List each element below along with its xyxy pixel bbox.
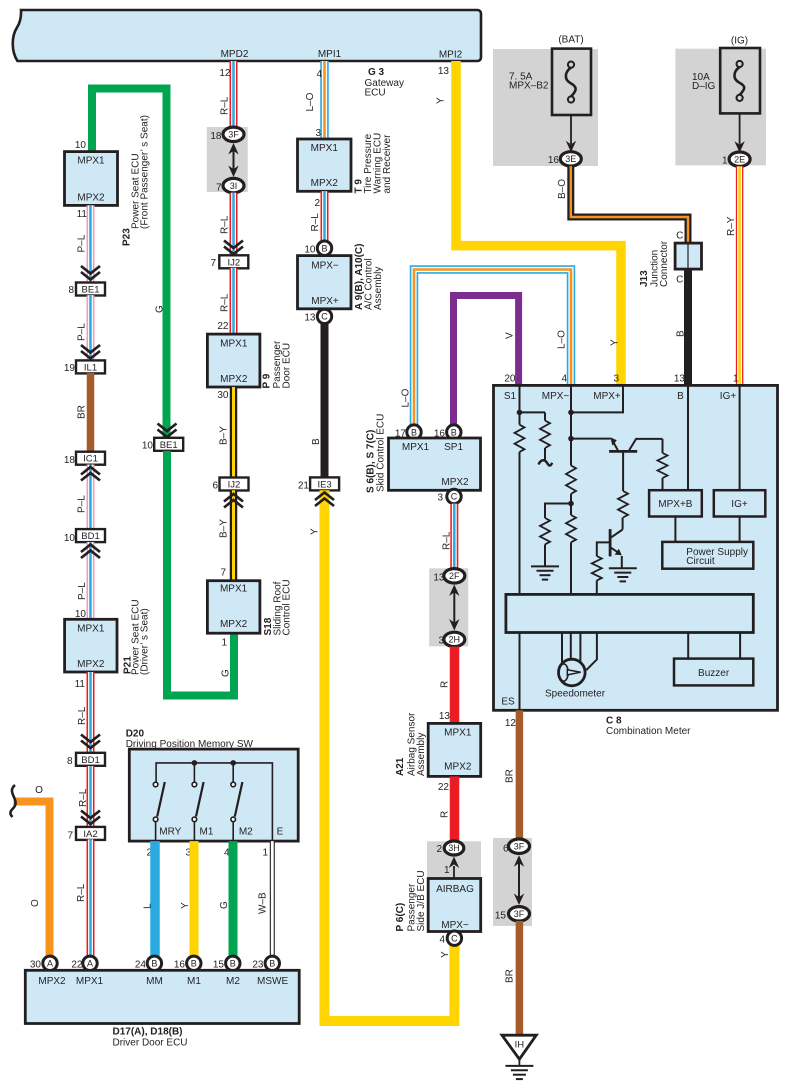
svg-text:IG+: IG+ xyxy=(720,391,737,402)
connector 3F pin15 xyxy=(509,907,530,921)
svg-text:4: 4 xyxy=(561,374,567,385)
junction IL1 pin19 xyxy=(76,360,105,373)
label BR xyxy=(505,969,516,983)
svg-text:S1: S1 xyxy=(504,391,517,402)
svg-text:MPX1: MPX1 xyxy=(402,442,430,453)
label B-O xyxy=(557,179,568,199)
svg-text:M1: M1 xyxy=(187,976,201,987)
svg-text:1: 1 xyxy=(444,865,450,876)
label BR xyxy=(77,405,88,419)
svg-text:IJ2: IJ2 xyxy=(228,480,241,491)
pin 18 IC1 xyxy=(64,455,76,466)
terminal M2 xyxy=(239,827,253,838)
svg-text:18: 18 xyxy=(210,131,222,142)
svg-text:R–L: R–L xyxy=(220,96,231,115)
svg-text:22: 22 xyxy=(71,960,83,971)
wire chevron down above IL1 xyxy=(81,345,100,359)
svg-text:P–L: P–L xyxy=(77,234,88,252)
svg-text:7: 7 xyxy=(67,831,73,842)
resistor R7 below Q2 base xyxy=(592,556,602,594)
svg-text:20: 20 xyxy=(504,374,516,385)
svg-text:BD1: BD1 xyxy=(81,531,99,542)
block MPX+B xyxy=(649,490,702,516)
terminal MPX1 of S18 xyxy=(220,584,248,595)
svg-text:B–Y: B–Y xyxy=(219,519,230,538)
junction BE1 pin10 xyxy=(154,438,183,451)
fuse block background (BAT) xyxy=(493,49,598,166)
svg-text:V: V xyxy=(505,332,516,339)
label A21 Airbag Sensor Assembly xyxy=(395,712,427,776)
label G xyxy=(155,305,166,313)
svg-text:Assembly: Assembly xyxy=(416,733,427,776)
svg-text:13: 13 xyxy=(304,313,316,324)
svg-text:C: C xyxy=(451,933,458,943)
pin 6 xyxy=(503,844,509,855)
wire R-L IJ2 to P9 xyxy=(230,268,238,334)
resistor R2 xyxy=(540,412,550,461)
pin 7 IJ2 xyxy=(210,258,216,269)
svg-text:MSWE: MSWE xyxy=(257,976,288,987)
svg-text:B: B xyxy=(269,959,275,969)
svg-text:16: 16 xyxy=(174,960,186,971)
wire MPX+ internal down-left xyxy=(571,385,623,412)
terminal MPX1 of D17 xyxy=(76,976,104,987)
svg-text:IA2: IA2 xyxy=(83,829,97,840)
ECU A21 Airbag Sensor Assembly box xyxy=(428,723,481,776)
svg-text:(IG): (IG) xyxy=(731,36,748,47)
svg-text:C 8: C 8 xyxy=(606,716,622,727)
wire B internal to MPX+B xyxy=(687,385,689,490)
wire S1 internal xyxy=(519,385,521,594)
connector 3F pin6 xyxy=(509,839,530,853)
svg-text:MPX–B2: MPX–B2 xyxy=(509,81,549,92)
connector block background 2F/2H xyxy=(429,568,468,646)
connector 3I pin7 xyxy=(223,178,244,192)
terminal MPX- xyxy=(542,391,570,402)
connector B pin16 of S6 xyxy=(447,425,461,439)
svg-text:Circuit: Circuit xyxy=(686,556,715,567)
arrow between 3F and 3I xyxy=(228,143,238,177)
svg-text:3: 3 xyxy=(613,374,619,385)
node junction base branch xyxy=(568,436,574,442)
svg-text:3: 3 xyxy=(315,128,321,139)
svg-text:D20: D20 xyxy=(126,729,145,740)
ECU A9 A/C Control Assembly box xyxy=(298,256,352,309)
wire B-Y P9 to IJ2(6) xyxy=(230,387,238,478)
label G xyxy=(219,901,230,909)
label R-L xyxy=(76,883,87,902)
svg-text:Buzzer: Buzzer xyxy=(698,668,730,679)
svg-text:R–L: R–L xyxy=(78,788,89,807)
label G xyxy=(221,669,232,677)
svg-text:P–L: P–L xyxy=(77,495,88,513)
svg-text:R–L: R–L xyxy=(310,213,321,232)
svg-text:B: B xyxy=(230,959,236,969)
wire V purple S6 SP1 to meter S1 xyxy=(454,296,519,426)
pin 10 BD1 xyxy=(64,533,76,544)
svg-text:2: 2 xyxy=(436,844,442,855)
svg-text:MPX+: MPX+ xyxy=(311,296,339,307)
block IG+ xyxy=(714,490,766,516)
svg-text:2H: 2H xyxy=(449,635,461,645)
wires to speedometer xyxy=(562,633,597,671)
wire chevron down above IJ2(7) xyxy=(224,241,243,255)
pin 4 meter xyxy=(561,374,567,385)
pin 1 xyxy=(722,156,728,167)
resistor R8 xyxy=(540,518,550,566)
svg-text:ECU: ECU xyxy=(365,88,386,99)
svg-text:12: 12 xyxy=(219,68,231,79)
terminal MPX2 of P9 xyxy=(220,374,248,385)
svg-text:C: C xyxy=(451,492,458,502)
svg-text:3F: 3F xyxy=(228,130,239,140)
svg-text:IC1: IC1 xyxy=(83,454,98,465)
svg-text:IH: IH xyxy=(515,1040,525,1051)
wire P-L BD1 to P21 xyxy=(87,542,95,619)
junction IE3 pin21 xyxy=(310,477,339,490)
label R xyxy=(440,681,451,688)
connector B pin24 of D17 xyxy=(147,956,161,970)
label G3 Gateway ECU xyxy=(365,67,404,99)
svg-text:6: 6 xyxy=(212,481,218,492)
terminal M1 of D17 xyxy=(187,976,201,987)
label L-O xyxy=(305,92,316,111)
svg-text:MPX−: MPX− xyxy=(542,391,570,402)
label P9 Passenger Door ECU xyxy=(262,340,293,388)
pin 8 BD1 xyxy=(67,756,73,767)
svg-text:7: 7 xyxy=(210,258,216,269)
pin 10 P23 xyxy=(75,140,87,151)
label P-L xyxy=(77,234,88,252)
svg-text:MM: MM xyxy=(146,976,163,987)
ECU S18 Sliding Roof Control ECU box xyxy=(207,581,260,634)
svg-text:R–L: R–L xyxy=(442,531,453,550)
wire W-B D20 E to D17 MSWE xyxy=(270,841,275,956)
svg-text:Speedometer: Speedometer xyxy=(545,689,606,700)
junction connector J13 xyxy=(675,243,701,269)
svg-text:23: 23 xyxy=(252,960,264,971)
pin 20 meter xyxy=(504,374,516,385)
label R xyxy=(440,811,451,818)
svg-text:B: B xyxy=(321,243,327,253)
svg-text:MPX1: MPX1 xyxy=(77,156,105,167)
transistor Q2 xyxy=(610,518,623,568)
svg-text:B: B xyxy=(677,391,684,402)
terminal IG+ xyxy=(720,391,737,402)
label R-L xyxy=(220,293,231,312)
label A9 A10 A/C Control Assembly xyxy=(354,244,384,310)
wire chevron up below IC1 xyxy=(81,467,100,481)
terminal MPX+ xyxy=(593,391,621,402)
svg-text:B: B xyxy=(676,330,687,337)
pin 30 xyxy=(30,960,42,971)
svg-text:D17(A), D18(B): D17(A), D18(B) xyxy=(113,1027,183,1038)
transistor Q1 xyxy=(609,437,662,491)
svg-text:4: 4 xyxy=(316,69,322,80)
pin 18 xyxy=(210,131,222,142)
svg-text:L–O: L–O xyxy=(305,92,316,111)
svg-text:BR: BR xyxy=(505,769,516,783)
arrow between 2F and 2H xyxy=(449,585,459,631)
label D17 D18 Driver Door ECU xyxy=(113,1027,188,1049)
ECU T9 Tire Pressure Warning ECU box xyxy=(298,139,352,191)
svg-text:22: 22 xyxy=(438,782,450,793)
connector B pin17 of S6 xyxy=(407,425,421,439)
terminal MM of D17 xyxy=(146,976,163,987)
label R-L xyxy=(220,215,231,234)
wire P-L P23 to BE1 xyxy=(87,205,95,282)
terminal MSWE of D17 xyxy=(257,976,288,987)
svg-text:MPX2: MPX2 xyxy=(441,477,469,488)
pin 21 IE3 xyxy=(298,481,310,492)
svg-text:Assembly: Assembly xyxy=(373,267,384,310)
label V xyxy=(505,332,516,339)
svg-text:18: 18 xyxy=(64,455,76,466)
svg-text:MPX1: MPX1 xyxy=(311,143,339,154)
node junction MPX+/MPX- xyxy=(568,410,574,416)
svg-text:MPI1: MPI1 xyxy=(318,49,342,60)
pin 2 xyxy=(146,848,152,859)
wire BR IL1 to IC1 xyxy=(87,373,95,452)
terminal MPX2 of S6 xyxy=(441,477,469,488)
svg-text:P 6(C): P 6(C) xyxy=(395,903,406,932)
resistor R3 on MPX- line xyxy=(566,466,576,494)
svg-text:1: 1 xyxy=(262,848,268,859)
svg-text:B: B xyxy=(191,959,197,969)
node junction M1 bus xyxy=(192,760,198,766)
svg-text:2F: 2F xyxy=(449,571,460,581)
terminal MPX2 of D17 xyxy=(38,976,66,987)
junction IJ2 pin6 xyxy=(220,478,249,491)
combination meter C8 box xyxy=(494,385,778,710)
label Y xyxy=(440,951,451,958)
pin 3 xyxy=(438,636,444,647)
svg-text:IL1: IL1 xyxy=(84,362,97,373)
wire chevron up below BD1 xyxy=(81,545,100,559)
wire chevron down above BE1(10) xyxy=(158,424,177,438)
wire R-L P21 to BD1(8) xyxy=(87,672,95,753)
connector block background 3F/3I xyxy=(207,127,248,192)
wire chevron down above BE1(8) xyxy=(81,266,100,280)
label P-L xyxy=(77,323,88,341)
pin 10 P21 xyxy=(75,609,87,620)
label Y xyxy=(436,97,447,104)
label C above J13 xyxy=(676,231,683,242)
pin 7 IA2 xyxy=(67,831,73,842)
svg-text:B: B xyxy=(311,438,322,445)
wire P-L IC1 to BD1 xyxy=(87,465,95,530)
fuse block background (IG) xyxy=(675,49,766,166)
connector A pin30 of D17 xyxy=(43,956,57,970)
node MPD2 xyxy=(221,49,249,60)
svg-text:1: 1 xyxy=(722,156,728,167)
svg-text:O: O xyxy=(30,899,41,907)
svg-text:B–Y: B–Y xyxy=(219,426,230,445)
label B xyxy=(676,330,687,337)
wire fuse to 2E with arrow xyxy=(734,113,744,152)
svg-text:Control ECU: Control ECU xyxy=(282,579,293,635)
resistor R6 Q1 base to Q2 xyxy=(618,491,628,518)
svg-text:J13: J13 xyxy=(639,270,650,287)
svg-text:7: 7 xyxy=(216,183,222,194)
label R-L xyxy=(77,706,88,725)
label S18 Sliding Roof Control ECU xyxy=(263,579,293,635)
label BR xyxy=(505,769,516,783)
connector 3E pin16 xyxy=(560,152,581,166)
pin 2 xyxy=(436,844,442,855)
svg-text:13: 13 xyxy=(439,711,451,722)
node MPI1 xyxy=(318,49,342,60)
svg-text:B: B xyxy=(411,427,417,437)
pin 16 xyxy=(174,960,186,971)
svg-text:MPX1: MPX1 xyxy=(76,976,104,987)
svg-text:3E: 3E xyxy=(565,154,576,164)
terminal S1 xyxy=(504,391,517,402)
svg-text:ES: ES xyxy=(501,697,515,708)
label P21 Power Seat ECU (Driver's Seat) xyxy=(123,599,151,675)
pin 3 xyxy=(437,493,443,504)
resistor R1 on S1 line xyxy=(515,425,525,452)
label 10A D-IG xyxy=(692,72,716,92)
svg-text:Driving Position Memory SW: Driving Position Memory SW xyxy=(126,739,254,750)
pin 4 xyxy=(224,848,230,859)
pin 7 xyxy=(216,183,222,194)
svg-text:22: 22 xyxy=(217,321,229,332)
svg-text:3H: 3H xyxy=(448,843,460,853)
terminal MPX- of P6 xyxy=(441,920,469,931)
pin 10 BE1 xyxy=(142,441,154,452)
pin 1 S18 xyxy=(221,638,227,649)
svg-text:Driver Door ECU: Driver Door ECU xyxy=(113,1038,188,1049)
svg-text:R–L: R–L xyxy=(220,215,231,234)
pin 12 xyxy=(219,68,231,79)
terminal AIRBAG of P6 xyxy=(436,884,474,895)
svg-text:BE1: BE1 xyxy=(160,440,178,451)
label Y xyxy=(610,339,621,346)
label L-O xyxy=(557,330,568,349)
label (BAT) xyxy=(558,35,583,46)
svg-text:13: 13 xyxy=(438,66,450,77)
svg-text:P–L: P–L xyxy=(77,323,88,341)
svg-text:Y: Y xyxy=(436,97,447,104)
svg-text:B–O: B–O xyxy=(557,179,568,199)
wire L-O from bus MPI1 to T9 xyxy=(320,61,329,139)
ECU P21 Power Seat ECU box xyxy=(65,619,117,672)
svg-text:Door ECU: Door ECU xyxy=(282,343,293,389)
wire chevron up below IJ2(6) xyxy=(224,494,243,508)
resistor R4 on MPX- line xyxy=(566,515,576,542)
connector A pin22 of D17 xyxy=(83,956,97,970)
ECU D17 D18 Driver Door ECU box xyxy=(25,970,299,1023)
label B xyxy=(311,438,322,445)
wires internal bus to buzzer xyxy=(688,633,740,659)
terminal MPX2 of A21 xyxy=(444,762,472,773)
label 7.5A MPX-B2 xyxy=(509,72,549,92)
label (IG) xyxy=(731,36,748,47)
wire fuse to 3E with arrow xyxy=(566,115,576,152)
svg-text:3F: 3F xyxy=(514,909,525,919)
svg-text:MPI2: MPI2 xyxy=(439,50,463,61)
wire BR meter ES to 3F xyxy=(516,710,524,839)
terminal MPX1 of P21 xyxy=(77,624,105,635)
terminal ES xyxy=(501,697,515,708)
svg-text:R–L: R–L xyxy=(76,883,87,902)
svg-text:MPX2: MPX2 xyxy=(77,193,105,204)
svg-text:19: 19 xyxy=(64,363,76,374)
wire branch S1 to R2 xyxy=(520,411,546,413)
pin 4 xyxy=(439,935,445,946)
connector C pin13 of A9 xyxy=(317,309,331,323)
svg-text:MPX2: MPX2 xyxy=(220,374,248,385)
svg-text:MPX−: MPX− xyxy=(311,261,339,272)
terminal MPX2 of P23 xyxy=(77,193,105,204)
svg-text:3I: 3I xyxy=(230,181,238,191)
wire branch to Q1 emitter xyxy=(571,438,611,440)
svg-text:AIRBAG: AIRBAG xyxy=(436,884,474,895)
connector C pin3 of S6 xyxy=(447,489,461,503)
wire P-L BE1 to IL1 xyxy=(87,295,95,361)
node MPI2 xyxy=(439,50,463,61)
svg-text:R: R xyxy=(440,811,451,818)
node junction on S1 xyxy=(517,410,523,416)
terminal M1 xyxy=(200,827,214,838)
svg-text:M2: M2 xyxy=(239,827,253,838)
svg-text:P23: P23 xyxy=(122,228,133,246)
pin 3 meter xyxy=(613,374,619,385)
pin 1 meter xyxy=(733,374,739,385)
junction IJ2 pin7 xyxy=(219,255,248,268)
connector B pin16 of D17 xyxy=(187,956,201,970)
svg-text:Skid Control ECU: Skid Control ECU xyxy=(376,414,387,492)
svg-text:MPX1: MPX1 xyxy=(220,584,248,595)
node junction M2 bus xyxy=(230,760,236,766)
label W-B xyxy=(257,892,268,914)
svg-text:MPX−: MPX− xyxy=(441,920,469,931)
label L-O xyxy=(401,388,412,407)
wire L blue D20 MRY to D17 MM xyxy=(150,841,160,956)
svg-text:P–L: P–L xyxy=(77,582,88,600)
pin 2 T9 xyxy=(314,198,320,209)
label L xyxy=(143,903,154,909)
switch M2 xyxy=(231,782,243,841)
wire lower branch MPX- to R8 xyxy=(545,504,571,519)
ground IH triangle xyxy=(502,1035,536,1066)
svg-text:E: E xyxy=(277,827,284,838)
svg-text:BR: BR xyxy=(77,405,88,419)
svg-text:Y: Y xyxy=(610,339,621,346)
ground R8 xyxy=(531,566,559,579)
wire G green from P23 pin10 up-right-down to BE1 xyxy=(92,89,167,440)
wire break squiggle under R2 xyxy=(539,460,553,465)
block Buzzer xyxy=(674,659,753,686)
label C8 Combination Meter xyxy=(606,716,691,738)
svg-text:MPX2: MPX2 xyxy=(311,178,339,189)
pin 3 xyxy=(185,848,191,859)
svg-text:R–Y: R–Y xyxy=(726,216,737,236)
svg-text:7: 7 xyxy=(220,568,226,579)
svg-text:B: B xyxy=(151,959,157,969)
terminal MPX1 of S6 xyxy=(402,442,430,453)
svg-text:Y: Y xyxy=(310,528,321,535)
terminal MPX2 of S18 xyxy=(220,619,248,630)
junction BD1 pin8 xyxy=(76,753,105,766)
pin 13 meter xyxy=(674,374,686,385)
wire R red 2H to A21 xyxy=(450,647,460,724)
svg-text:MPX1: MPX1 xyxy=(77,624,105,635)
svg-text:2E: 2E xyxy=(734,154,745,164)
wire R-L T9 to A9 xyxy=(321,191,329,241)
svg-text:BD1: BD1 xyxy=(81,755,99,766)
